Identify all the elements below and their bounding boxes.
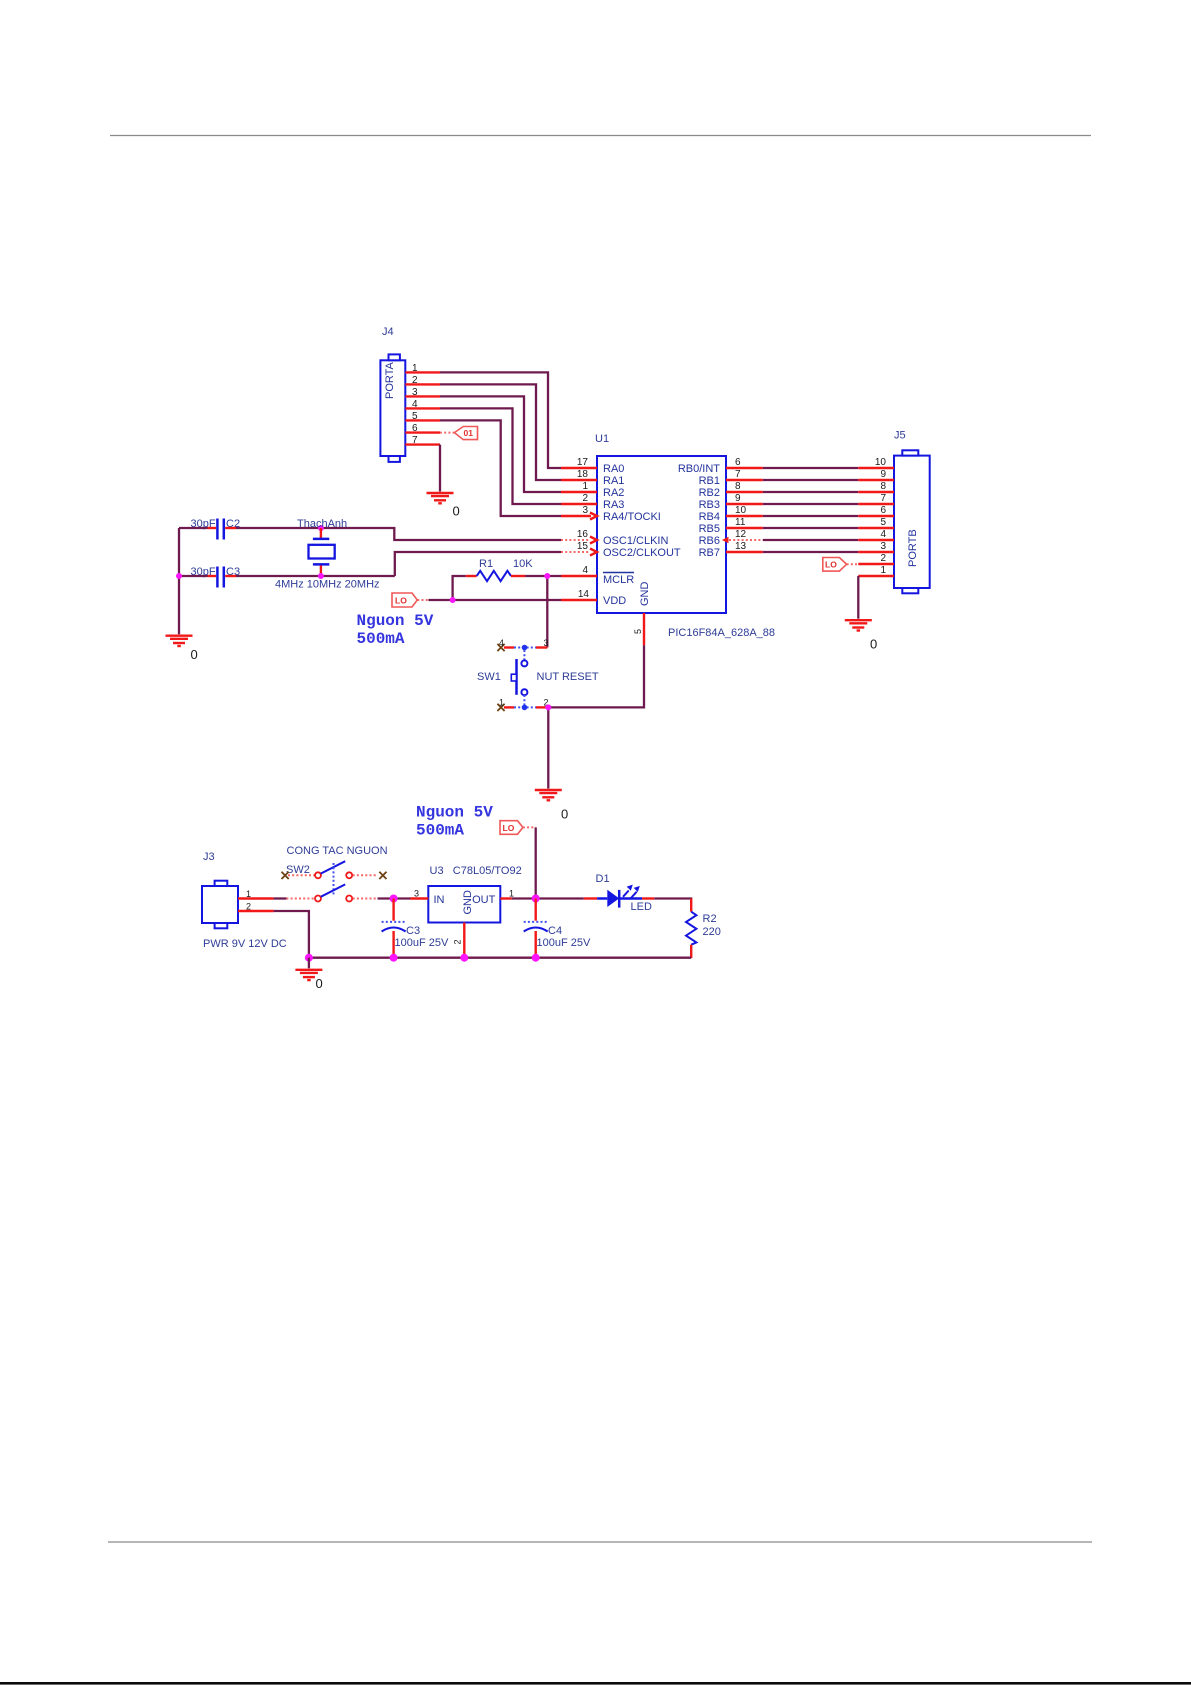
svg-text:LED: LED	[631, 901, 652, 913]
svg-text:RA0: RA0	[603, 463, 624, 475]
Nguon 5V 500mA label (upper)	[357, 612, 434, 648]
svg-text:J5: J5	[894, 430, 906, 442]
svg-text:17: 17	[577, 457, 589, 468]
wire U1.RB1 to J5.9	[763, 479, 859, 481]
svg-text:4MHz 10MHz 20MHz: 4MHz 10MHz 20MHz	[275, 579, 380, 591]
svg-text:1: 1	[880, 565, 886, 576]
U1 pin 11 RB5	[699, 517, 763, 535]
svg-text:C4: C4	[548, 925, 562, 937]
svg-text:CONG TAC NGUON: CONG TAC NGUON	[287, 845, 388, 857]
U1 pin 12 RB6	[699, 529, 763, 547]
wire SW1 to ground	[547, 707, 549, 788]
svg-text:6: 6	[880, 505, 886, 516]
svg-text:3: 3	[880, 541, 886, 552]
svg-text:0: 0	[453, 504, 460, 519]
J4 pin 3	[405, 387, 440, 398]
J4 pin 6	[405, 423, 440, 434]
wire U1.RB3 to J5.7	[763, 503, 859, 505]
net label 01 on J4 pin 6	[440, 427, 478, 440]
J3 pin 1	[238, 889, 274, 899]
svg-text:2: 2	[880, 553, 886, 564]
J5 pin 1	[858, 565, 894, 576]
svg-text:6: 6	[735, 457, 741, 468]
svg-text:GND: GND	[462, 890, 474, 915]
resistor R2 220	[686, 899, 721, 959]
wire J4.1 to U1.RA0	[440, 372, 561, 468]
svg-text:5: 5	[880, 517, 886, 528]
U1 pin 6 RB0/INT	[678, 457, 763, 475]
svg-text:2: 2	[582, 493, 588, 504]
wire VCC row to U1.VDD	[428, 599, 561, 601]
svg-text:J4: J4	[382, 326, 394, 338]
wire rail to ground	[308, 958, 310, 969]
wire U1.RB6 to J5.4	[763, 539, 859, 541]
svg-text:5: 5	[633, 629, 643, 634]
node C3/crystal junction	[318, 573, 324, 579]
svg-text:9: 9	[735, 493, 741, 504]
svg-text:1: 1	[246, 889, 251, 899]
svg-text:GND: GND	[639, 582, 651, 607]
resistor R1 10K	[466, 558, 534, 581]
header rule	[110, 135, 1091, 137]
svg-text:10: 10	[735, 505, 747, 516]
connector J3	[202, 851, 287, 950]
svg-text:0: 0	[870, 637, 877, 652]
svg-text:10: 10	[875, 457, 887, 468]
U1 pin 1 RA2	[561, 481, 624, 499]
svg-text:SW1: SW1	[477, 671, 501, 683]
svg-text:2: 2	[453, 939, 463, 944]
svg-text:Nguon 5V: Nguon 5V	[357, 612, 434, 630]
wire J5.1 to ground	[857, 576, 859, 619]
svg-text:13: 13	[735, 541, 747, 552]
J4 pin 7	[405, 435, 440, 446]
U1 pin 16 OSC1/CLKIN	[561, 529, 668, 547]
ground rail wire	[309, 957, 691, 959]
svg-text:IN: IN	[434, 894, 445, 906]
net label LO at regulator output	[500, 821, 536, 835]
wire U1.RB7 to J5.3	[763, 551, 859, 553]
svg-text:R1: R1	[479, 558, 493, 570]
connector J4	[380, 326, 405, 462]
svg-text:RA4/TOCKI: RA4/TOCKI	[603, 511, 661, 523]
svg-text:18: 18	[577, 469, 589, 480]
svg-text:LO: LO	[503, 823, 515, 833]
svg-text:4: 4	[499, 638, 504, 648]
ground at J4 pin7	[427, 493, 460, 519]
net label LO at VCC row	[392, 593, 428, 607]
U1 pin 14 VDD	[561, 589, 626, 607]
J5 pin 10	[858, 457, 894, 468]
svg-text:1: 1	[582, 481, 588, 492]
svg-text:1: 1	[412, 363, 418, 374]
U1 pin 8 RB2	[699, 481, 763, 499]
svg-text:OUT: OUT	[472, 894, 496, 906]
svg-text:100uF 25V: 100uF 25V	[537, 937, 591, 949]
svg-text:Nguon 5V: Nguon 5V	[416, 804, 493, 822]
svg-text:RA2: RA2	[603, 487, 624, 499]
svg-text:LO: LO	[825, 560, 837, 570]
U1 pin 18 RA1	[561, 469, 624, 487]
svg-text:RB1: RB1	[699, 475, 720, 487]
svg-text:RB5: RB5	[699, 523, 720, 535]
svg-text:7: 7	[735, 469, 741, 480]
wire U3.OUT to 5V node and LED	[512, 897, 584, 899]
svg-text:OSC2/CLKOUT: OSC2/CLKOUT	[603, 547, 681, 559]
U1 pin 10 RB4	[699, 505, 763, 523]
svg-text:500mA: 500mA	[416, 822, 464, 840]
node R1/MCLR junction	[544, 573, 550, 579]
wire C2 row to crystal top and OSC1	[179, 528, 561, 540]
J4 pin 1	[405, 363, 440, 374]
svg-text:16: 16	[577, 529, 589, 540]
wire U1.RB2 to J5.8	[763, 491, 859, 493]
svg-text:100uF 25V: 100uF 25V	[395, 937, 449, 949]
svg-text:PWR 9V 12V DC: PWR 9V 12V DC	[203, 938, 287, 950]
svg-text:LO: LO	[395, 596, 407, 606]
ground at crystal rail	[166, 636, 198, 662]
svg-text:15: 15	[577, 541, 589, 552]
wire LO to 5V node	[535, 827, 537, 898]
svg-text:11: 11	[735, 517, 746, 528]
crystal Y1 ThachAnh	[275, 528, 380, 591]
connector J5	[894, 430, 930, 594]
capacitor C4 100uF 25V	[524, 899, 591, 958]
svg-text:4: 4	[412, 399, 418, 410]
node left rail junction	[176, 573, 182, 579]
svg-text:RB2: RB2	[699, 487, 720, 499]
svg-text:220: 220	[703, 926, 721, 938]
node VCC junction	[450, 597, 456, 603]
wire left vertical to ground	[178, 528, 180, 634]
svg-text:U3: U3	[430, 865, 444, 877]
J4 pin 5	[405, 411, 440, 422]
svg-text:9: 9	[880, 469, 886, 480]
svg-text:C3: C3	[406, 925, 420, 937]
J5 pin 7	[858, 493, 894, 504]
svg-text:1: 1	[499, 698, 504, 708]
J5 pin 5	[858, 517, 894, 528]
Nguon 5V 500mA label (lower)	[416, 804, 493, 840]
svg-text:01: 01	[464, 428, 474, 438]
wire J4.2 to U1.RA1	[440, 384, 561, 480]
svg-text:0: 0	[191, 647, 198, 662]
svg-text:OSC1/CLKIN: OSC1/CLKIN	[603, 535, 668, 547]
ground below SW1	[535, 790, 568, 822]
U1 pin 5 GND	[633, 582, 651, 646]
U1 pin 15 OSC2/CLKOUT	[561, 541, 681, 559]
J5 pin 6	[858, 505, 894, 516]
net label LO at J5 pin 2	[823, 558, 859, 572]
wire SW2 to U3.IN	[378, 897, 411, 899]
LED D1	[584, 873, 655, 913]
node SW1/GND junction	[545, 704, 551, 710]
J5 pin 3	[858, 541, 894, 552]
svg-text:PORTA: PORTA	[384, 361, 396, 399]
U1 pin 4 MCLR	[561, 565, 634, 586]
J5 pin 9	[858, 469, 894, 480]
svg-text:2: 2	[246, 902, 251, 912]
svg-text:0: 0	[561, 807, 568, 822]
wire U1.RB5 to J5.5	[763, 527, 859, 529]
svg-text:4: 4	[880, 529, 886, 540]
page bottom edge	[0, 1682, 1191, 1685]
wire R1 left to VCC row	[453, 576, 466, 600]
svg-text:PIC16F84A_628A_88: PIC16F84A_628A_88	[668, 627, 775, 639]
U1 pin 17 RA0	[561, 457, 624, 475]
capacitor C2 30pF	[191, 518, 241, 540]
ground at power rail	[295, 970, 322, 991]
svg-text:14: 14	[578, 589, 590, 600]
svg-text:7: 7	[880, 493, 886, 504]
J5 pin 2	[858, 553, 894, 564]
svg-text:500mA: 500mA	[357, 630, 405, 648]
svg-text:D1: D1	[596, 873, 610, 885]
J4 pin 2	[405, 375, 440, 386]
node rail J3 junction	[305, 954, 313, 962]
op-amp U1 PIC16F84A body	[595, 433, 775, 639]
U1 pin 9 RB3	[699, 493, 763, 511]
ground at J5 pin1	[845, 620, 877, 651]
svg-text:NUT RESET: NUT RESET	[537, 671, 599, 683]
svg-text:C78L05/TO92: C78L05/TO92	[453, 865, 522, 877]
svg-text:RA1: RA1	[603, 475, 624, 487]
svg-text:RA3: RA3	[603, 499, 624, 511]
U1 pin 13 RB7	[699, 541, 763, 559]
svg-text:7: 7	[412, 435, 418, 446]
svg-text:6: 6	[412, 423, 418, 434]
svg-text:5: 5	[412, 411, 418, 422]
svg-text:8: 8	[880, 481, 886, 492]
svg-text:MCLR: MCLR	[603, 574, 634, 586]
svg-text:0: 0	[316, 976, 323, 991]
wire LED to R2	[654, 899, 691, 900]
J5 pin 8	[858, 481, 894, 492]
svg-text:RB3: RB3	[699, 499, 720, 511]
U1 pin 2 RA3	[561, 493, 624, 511]
wire J4.5 to U1.RA4	[440, 420, 561, 516]
svg-text:RB7: RB7	[699, 547, 720, 559]
node ThachAnh	[297, 518, 347, 531]
wire J3.2 down to ground rail	[274, 911, 309, 958]
node U3 output junction	[532, 895, 540, 903]
node rail C3 junction	[390, 954, 398, 962]
U1 pin 7 RB1	[699, 469, 763, 487]
U1 pin 3 RA4/TOCKI	[561, 505, 661, 523]
svg-text:J3: J3	[203, 851, 215, 863]
svg-text:3: 3	[544, 638, 549, 648]
wire J3.1 to SW2	[274, 897, 287, 899]
footer rule	[108, 1541, 1092, 1543]
svg-text:2: 2	[412, 375, 418, 386]
wire C3 row to crystal bottom and OSC2	[179, 552, 561, 576]
J3 pin 2	[238, 902, 274, 912]
svg-text:RB6: RB6	[699, 535, 720, 547]
svg-text:U1: U1	[595, 433, 609, 445]
svg-text:RB0/INT: RB0/INT	[678, 463, 720, 475]
wire J4.3 to U1.RA2	[440, 396, 561, 492]
svg-text:8: 8	[735, 481, 741, 492]
wire U1.GND down and to SW1	[548, 645, 644, 707]
node rail U3 junction	[460, 954, 468, 962]
svg-text:PORTB: PORTB	[907, 529, 919, 567]
node rail C4 junction	[532, 954, 540, 962]
wire J4.7 to ground	[439, 445, 441, 492]
wire U1.RB4 to J5.6	[763, 515, 859, 517]
wire U1.RB0 to J5.10	[763, 467, 859, 469]
wire R1 right to MCLR and down to SW1	[525, 576, 561, 648]
svg-text:RB4: RB4	[699, 511, 720, 523]
J5 pin 4	[858, 529, 894, 540]
svg-text:12: 12	[735, 529, 747, 540]
capacitor C3 30pF	[191, 566, 241, 588]
svg-text:4: 4	[582, 565, 588, 576]
regulator U3 C78L05/TO92	[411, 865, 522, 958]
svg-text:R2: R2	[703, 913, 717, 925]
svg-text:10K: 10K	[513, 558, 533, 570]
capacitor C3 100uF 25V	[382, 899, 449, 958]
svg-text:3: 3	[582, 505, 588, 516]
switch SW2 CONG TAC NGUON	[282, 845, 388, 902]
wire J4.4 to U1.RA3	[440, 408, 561, 504]
svg-text:1: 1	[509, 889, 514, 899]
node C3 branch junction	[390, 895, 398, 903]
svg-text:SW2: SW2	[286, 864, 310, 876]
svg-text:3: 3	[414, 889, 419, 899]
switch SW1 NUT RESET	[477, 638, 599, 711]
svg-text:3: 3	[412, 387, 418, 398]
svg-text:VDD: VDD	[603, 595, 626, 607]
J4 pin 4	[405, 399, 440, 410]
